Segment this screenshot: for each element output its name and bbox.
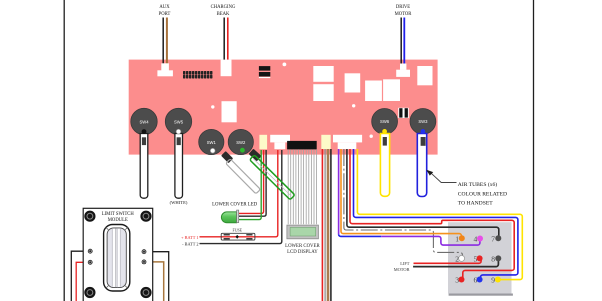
connector handset plug beige — [321, 135, 330, 149]
connector drive motor — [396, 64, 410, 77]
annotation leader arrow — [426, 170, 456, 183]
terminal 4 — [473, 235, 483, 244]
svg-text:SW2: SW2 — [236, 140, 246, 145]
connector loom white T2 — [333, 135, 362, 149]
pad cutout G — [222, 101, 237, 122]
wire charging red — [227, 18, 229, 62]
wire loom purple vertical — [338, 149, 340, 234]
connector AUX port — [157, 63, 173, 76]
svg-text:1: 1 — [455, 235, 459, 244]
handset cable black — [330, 149, 332, 301]
air tube SW6 yellow — [380, 134, 389, 197]
wire LED red — [239, 150, 264, 213]
svg-text:LOWER COVER LED: LOWER COVER LED — [212, 203, 258, 208]
air tube SW1 sleeve — [221, 151, 233, 163]
wire loom red to 3 — [350, 149, 514, 280]
connector pin header J2 — [183, 71, 212, 79]
wire module left black — [71, 251, 90, 301]
wire loom dash-dot to 2 — [344, 149, 463, 258]
nozzle dot SW6 — [382, 129, 387, 134]
pad cutout E — [383, 79, 400, 101]
wire lift motor red to 5 — [414, 259, 482, 264]
frame right border — [533, 0, 535, 301]
component IC2 black bar — [259, 72, 270, 77]
handset cable red — [321, 149, 323, 301]
switch SW4 — [131, 108, 157, 134]
terminal 7 — [491, 235, 501, 244]
slot roller shading — [106, 227, 129, 289]
wire drive black — [400, 18, 402, 65]
wire loom yellow to 9 — [357, 149, 522, 280]
pad cutout F — [417, 66, 432, 85]
svg-text:(WHITE): (WHITE) — [170, 200, 188, 205]
air tube SW3 blue — [417, 134, 426, 197]
svg-text:FUSE: FUSE — [233, 229, 243, 233]
air tube SW2 body green — [250, 155, 295, 200]
terminal 5 — [473, 255, 482, 264]
screw bottom-left — [84, 287, 95, 298]
fuse F1 — [221, 233, 255, 240]
LCD display — [287, 225, 319, 239]
wire BATT2 black — [200, 150, 282, 244]
svg-text:9: 9 — [491, 276, 495, 285]
wire charging black — [223, 18, 225, 62]
svg-text:SW6: SW6 — [380, 119, 390, 124]
svg-text:AUX: AUX — [159, 5, 170, 10]
svg-text:MOTOR: MOTOR — [394, 267, 410, 272]
air tube SW2 sleeve — [249, 149, 262, 162]
switch SW5 — [165, 108, 191, 134]
component C8 black bar — [405, 108, 408, 117]
nozzle dot SW5 — [176, 129, 181, 134]
svg-text:8: 8 — [491, 255, 495, 264]
via 2 — [211, 105, 214, 108]
handset cable brown — [327, 149, 330, 301]
hole left upper — [88, 249, 93, 254]
via 1 — [283, 63, 287, 67]
wire module right brown — [144, 262, 164, 301]
svg-text:AIR TUBES (x6): AIR TUBES (x6) — [458, 181, 498, 188]
handset cable gray — [324, 149, 326, 301]
air tube SW1 body — [226, 159, 261, 194]
wire BATT1 red — [200, 150, 278, 237]
air tube SW5 — [175, 134, 183, 199]
component C7 base — [398, 108, 409, 118]
PCB board — [129, 60, 438, 155]
svg-text:- BATT 2: - BATT 2 — [182, 241, 198, 246]
via 6 — [370, 135, 373, 138]
screw bottom-right — [140, 287, 151, 298]
terminal block body — [448, 222, 512, 293]
svg-text:LOWER COVER: LOWER COVER — [285, 244, 320, 249]
hole right upper — [142, 249, 147, 254]
connector battery white T1 — [270, 135, 290, 149]
svg-text:DRIVE: DRIVE — [396, 5, 410, 10]
svg-text:LIFT: LIFT — [400, 261, 410, 266]
via 3 — [352, 104, 355, 107]
svg-text:BEAK: BEAK — [217, 12, 230, 17]
switch SW2 — [228, 129, 253, 154]
connector charging beak — [221, 60, 232, 77]
LED D1 body — [221, 210, 238, 223]
svg-text:SW4: SW4 — [139, 119, 149, 124]
connector LCD ribbon socket — [287, 141, 317, 150]
wire loom black to 7 — [347, 149, 499, 238]
wire drive blue — [403, 18, 405, 65]
wire loom blue overlap segment — [339, 234, 382, 236]
svg-text:LCD DISPLAY: LCD DISPLAY — [287, 250, 318, 255]
svg-text:COLOUR RELATED: COLOUR RELATED — [458, 192, 507, 198]
terminal 6 — [473, 276, 482, 285]
svg-text:TO HANDSET: TO HANDSET — [458, 201, 493, 207]
wire LED green — [239, 150, 262, 220]
limit switch module box — [83, 208, 153, 301]
svg-text:MOTOR: MOTOR — [395, 12, 413, 17]
slot roller inner — [107, 228, 126, 288]
svg-text:+ BATT 1: + BATT 1 — [181, 235, 198, 240]
terminal block base strip — [449, 294, 513, 296]
wire loom purple to 4 — [381, 236, 480, 245]
wire lift motor black to 8 — [413, 259, 498, 267]
component IC1 black bar — [259, 66, 270, 71]
switch SW1 — [199, 129, 224, 154]
svg-text:MODULE: MODULE — [108, 218, 128, 223]
screw top-left — [84, 211, 95, 222]
connector LED plug beige — [259, 135, 267, 150]
svg-text:SW1: SW1 — [207, 140, 217, 145]
screw top-right — [140, 211, 151, 222]
pad cutout A — [313, 66, 333, 82]
terminal 2 — [455, 255, 464, 264]
component C7 black bar — [399, 108, 402, 117]
svg-text:7: 7 — [491, 235, 495, 244]
nozzle dot SW2 — [240, 148, 245, 153]
terminal 1 — [455, 235, 465, 244]
wire loom blue to 6 — [354, 149, 518, 280]
terminal 3 — [455, 276, 464, 285]
pad cutout C — [345, 73, 361, 92]
nozzle dot SW1 — [210, 148, 215, 153]
hole left lower — [88, 260, 93, 265]
svg-text:4: 4 — [473, 235, 477, 244]
pad cutout B — [313, 84, 333, 101]
LCD ribbon cable — [288, 149, 316, 224]
wire aux brown — [166, 18, 168, 65]
wire module left red — [76, 262, 90, 301]
nozzle dot SW4 — [142, 129, 147, 134]
terminal 9 — [491, 276, 501, 285]
component IC2 white underline — [259, 77, 270, 78]
svg-text:SW5: SW5 — [174, 119, 184, 124]
hole right lower — [142, 260, 147, 265]
label AIR TUBES — [458, 181, 507, 206]
svg-text:SW3: SW3 — [418, 119, 428, 124]
wire LED black — [239, 150, 267, 216]
svg-text:LIMIT SWITCH: LIMIT SWITCH — [102, 212, 135, 217]
pad cutout D — [365, 81, 382, 102]
wire aux black — [162, 18, 164, 65]
terminal 8 — [491, 255, 501, 264]
frame left border — [63, 0, 65, 301]
wire loom orange to 1 — [341, 149, 461, 238]
switch SW6 — [372, 109, 398, 135]
slot roller outer — [104, 225, 130, 292]
switch SW3 — [410, 109, 436, 135]
nozzle dot SW3 — [421, 129, 426, 134]
svg-text:CHARGING: CHARGING — [211, 5, 236, 10]
wire module right black — [144, 252, 169, 301]
air tube SW4 — [140, 134, 148, 199]
svg-text:PORT: PORT — [159, 12, 171, 17]
